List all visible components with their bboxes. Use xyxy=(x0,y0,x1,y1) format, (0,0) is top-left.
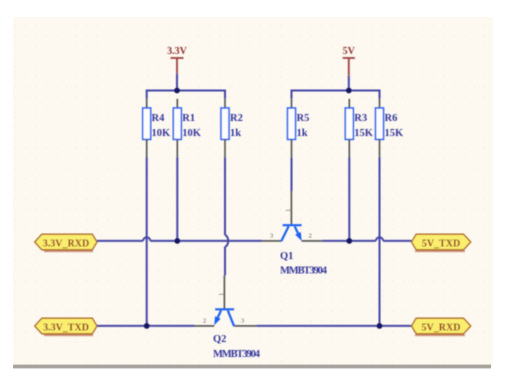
svg-text:MMBT3904: MMBT3904 xyxy=(280,266,328,277)
svg-text:R4: R4 xyxy=(152,113,166,124)
svg-text:R6: R6 xyxy=(385,113,398,124)
wire lower row right xyxy=(257,325,412,327)
svg-text:5V_TXD: 5V_TXD xyxy=(422,238,460,249)
power flag 3.3V xyxy=(167,46,188,73)
wire 5V bus xyxy=(292,91,380,99)
net port 3.3V_RXD xyxy=(35,234,97,251)
svg-text:2: 2 xyxy=(203,318,206,325)
resistor R3 15K xyxy=(345,99,374,158)
wire 3.3V stem xyxy=(176,74,178,91)
wire lower row left xyxy=(97,325,195,327)
wire upper row right with hop at R6 xyxy=(322,237,411,241)
net port 3.3V_TXD xyxy=(35,318,97,335)
svg-text:1k: 1k xyxy=(297,128,308,139)
resistor R6 15K xyxy=(376,99,405,158)
wire 5V stem xyxy=(348,76,350,91)
svg-text:15K: 15K xyxy=(354,128,374,139)
svg-text:10K: 10K xyxy=(182,128,202,139)
transistor Q1 MMBT3904 xyxy=(262,191,328,277)
net port 5V_RXD xyxy=(412,318,471,335)
resistor R2 1k xyxy=(221,99,243,158)
transistor Q2 MMBT3904 xyxy=(195,275,261,360)
svg-text:3.3V_TXD: 3.3V_TXD xyxy=(43,322,89,333)
svg-text:R5: R5 xyxy=(297,113,310,124)
wire R2 to Q2 column with hop xyxy=(225,157,228,275)
svg-text:R2: R2 xyxy=(230,113,243,124)
resistor R5 1k xyxy=(288,99,310,158)
svg-text:R1: R1 xyxy=(182,113,195,124)
svg-text:3.3V_RXD: 3.3V_RXD xyxy=(43,238,89,249)
svg-text:R3: R3 xyxy=(354,113,367,124)
svg-text:1k: 1k xyxy=(230,128,241,139)
svg-text:MMBT3904: MMBT3904 xyxy=(213,349,261,360)
junction 3.3V bus xyxy=(174,88,180,94)
sheet bottom border shadow xyxy=(13,365,491,369)
svg-text:3: 3 xyxy=(270,233,273,240)
power flag 5V xyxy=(343,46,356,76)
wire 3.3V bus xyxy=(147,91,225,99)
wire R4 column vertical xyxy=(146,157,148,326)
svg-text:Q1: Q1 xyxy=(280,251,293,262)
svg-text:2: 2 xyxy=(309,233,312,240)
junction 5V bus xyxy=(346,88,352,94)
svg-text:5V: 5V xyxy=(343,46,356,57)
junction lower row R4 xyxy=(144,323,150,329)
wire R5 to Q1 xyxy=(291,157,293,191)
junction upper row R1 xyxy=(174,238,180,244)
resistor R4 10K xyxy=(143,99,171,158)
net port 5V_TXD xyxy=(412,234,471,251)
svg-text:Q2: Q2 xyxy=(213,334,226,345)
svg-text:3.3V: 3.3V xyxy=(167,46,188,57)
resistor R1 10K xyxy=(173,99,202,158)
wire R6 column vertical xyxy=(379,157,381,326)
wire R3 column vertical xyxy=(348,157,350,241)
svg-text:1: 1 xyxy=(285,209,292,212)
svg-text:5V_RXD: 5V_RXD xyxy=(422,322,461,333)
svg-text:15K: 15K xyxy=(385,128,405,139)
svg-text:3: 3 xyxy=(241,318,244,325)
junction upper row R3 xyxy=(346,238,352,244)
svg-text:10K: 10K xyxy=(152,128,172,139)
svg-text:1: 1 xyxy=(218,293,225,296)
wire R1 column vertical xyxy=(176,157,178,241)
junction lower row R6 xyxy=(377,323,383,329)
wire upper row left with hop at R4 xyxy=(97,237,262,241)
